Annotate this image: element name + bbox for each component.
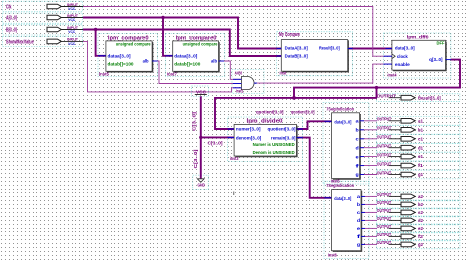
svg-text:OUTPUT: OUTPUT bbox=[377, 240, 392, 245]
lpm_compare0 inst5 bounding box bbox=[98, 34, 158, 77]
wire bus B[3..0] from input pin to MyCompare DataB bbox=[83, 30, 281, 57]
output pin e2 bounding box bbox=[376, 224, 460, 233]
output pin g2 bbox=[389, 243, 402, 245]
output pin e1 bounding box bbox=[376, 152, 460, 161]
node junction C bus bbox=[199, 136, 202, 139]
svg-text:e: e bbox=[356, 154, 360, 159]
wire bus remain to 7SegIndication inst6 data bbox=[296, 138, 331, 198]
wire bus riser near output pin Result bbox=[376, 88, 378, 98]
ground GND bbox=[197, 179, 204, 183]
wire bus C[3..0] to lpm_divide0 denom bbox=[201, 136, 234, 138]
AND3 output stub bbox=[254, 82, 257, 84]
svg-text:unsigned compare: unsigned compare bbox=[183, 41, 218, 46]
node junction A-branch bbox=[161, 16, 164, 19]
wire 7SegIndication inst5 d to output pin d1 bbox=[360, 147, 377, 149]
output pin f1 bounding box bbox=[376, 161, 460, 170]
wire 7SegIndication inst6 f to output pin f2 bbox=[361, 235, 377, 237]
wire 7SegIndication inst5 b to output pin b1 bbox=[360, 129, 377, 131]
svg-text:d: d bbox=[356, 145, 359, 150]
input pin ShowMaxValue bounding box bbox=[3, 36, 83, 46]
output pin c2 bbox=[389, 211, 402, 213]
port stubs 7SegIndication inst5 bbox=[324, 120, 331, 122]
port stubs MyCompare bbox=[277, 48, 282, 50]
input pin B bounding box bbox=[3, 25, 83, 35]
GND bounding box bbox=[193, 175, 208, 190]
svg-text:b2: b2 bbox=[418, 202, 423, 207]
svg-text:inst5: inst5 bbox=[99, 71, 109, 76]
VCC bounding box bbox=[192, 86, 209, 97]
wire bus B branch down to lpm_compare0 inst5 dataa bbox=[96, 30, 106, 56]
lpm_divide0 bounding box bbox=[228, 117, 303, 162]
wire 7SegIndication inst5 a to output pin a1 bbox=[360, 120, 377, 122]
svg-text:DataA[3..0]: DataA[3..0] bbox=[285, 46, 309, 51]
svg-text:ShowMaxValue: ShowMaxValue bbox=[6, 39, 34, 45]
svg-text:OUTPUT: OUTPUT bbox=[377, 144, 392, 149]
svg-text:data[3..0]: data[3..0] bbox=[395, 45, 415, 50]
wire bus quotient to 7SegIndication inst5 data bbox=[296, 121, 331, 129]
wire 7SegIndication inst5 g to output pin g1 bbox=[360, 174, 377, 176]
wire 7SegIndication inst5 e to output pin e1 bbox=[360, 156, 377, 158]
7SegIndication inst6 bounding box bbox=[324, 181, 369, 258]
svg-text:VCC: VCC bbox=[196, 89, 207, 94]
wire ShowMaxValue to AND3 input 3 bbox=[83, 41, 241, 92]
svg-text:alb: alb bbox=[143, 59, 149, 64]
wire AND3 output to lpm_dff0 enable bbox=[254, 64, 392, 83]
svg-text:VCC: VCC bbox=[68, 17, 75, 22]
svg-text:inst3: inst3 bbox=[230, 156, 239, 161]
svg-text:inst7: inst7 bbox=[167, 71, 177, 76]
svg-text:d: d bbox=[357, 218, 360, 223]
svg-text:OUTPUT: OUTPUT bbox=[377, 192, 392, 197]
svg-text:OUTPUT: OUTPUT bbox=[377, 94, 396, 99]
svg-text:c: c bbox=[356, 137, 360, 142]
svg-text:GND: GND bbox=[198, 183, 206, 188]
port stubs lpm_compare0 inst7 bbox=[166, 55, 173, 57]
svg-text:a: a bbox=[356, 119, 360, 124]
lpm_divide0 U5 block bbox=[235, 126, 297, 157]
lpm_dff0 U4 block bbox=[393, 42, 446, 71]
svg-text:AND3: AND3 bbox=[235, 70, 243, 75]
wire 7SegIndication inst5 c to output pin c1 bbox=[360, 138, 377, 140]
output pin c1 bounding box bbox=[376, 134, 460, 143]
svg-text:dataa[3..0]: dataa[3..0] bbox=[174, 53, 198, 58]
svg-text:lpm_dff0: lpm_dff0 bbox=[407, 34, 429, 40]
output pin d1 bounding box bbox=[376, 143, 460, 152]
wire bus MyCompare Result to lpm_dff0 data bbox=[348, 48, 392, 50]
svg-text:Result[3..0]: Result[3..0] bbox=[319, 46, 340, 51]
and-gate AND3 inst1 bbox=[241, 77, 254, 90]
svg-text:OUTPUT: OUTPUT bbox=[377, 216, 392, 221]
svg-text:alb: alb bbox=[211, 59, 217, 64]
input pin A bounding box bbox=[3, 13, 83, 23]
input pin ShowMaxValue bbox=[47, 39, 61, 44]
output pin g1 bbox=[389, 174, 402, 176]
svg-text:c: c bbox=[357, 210, 361, 215]
svg-text:DFF: DFF bbox=[437, 40, 445, 45]
input pin A[3..0] bbox=[47, 15, 61, 20]
node label C[3..0] rotated lower bbox=[193, 149, 198, 169]
svg-text:f2: f2 bbox=[418, 234, 424, 239]
clock triangle lpm_dff0 bbox=[392, 54, 395, 59]
svg-text:OUTPUT: OUTPUT bbox=[377, 135, 392, 140]
output pin f2 bounding box bbox=[376, 232, 460, 241]
svg-text:quotient[3..0]: quotient[3..0] bbox=[268, 127, 297, 132]
wire 7SegIndication inst6 a to output pin a2 bbox=[361, 195, 377, 197]
output pin d2 bounding box bbox=[376, 216, 460, 225]
svg-text:f1: f1 bbox=[418, 163, 424, 168]
port stubs 7SegIndication inst6 bbox=[324, 197, 331, 199]
wire Clk to lpm_dff0 clock bbox=[83, 7, 392, 57]
output pin f1 bbox=[389, 165, 402, 167]
svg-text:Clk: Clk bbox=[6, 4, 12, 10]
svg-text:data[3..0]: data[3..0] bbox=[334, 119, 351, 124]
svg-text:inst4: inst4 bbox=[388, 72, 397, 77]
wire bus C[3..0] vertical VCC to GND bbox=[200, 96, 202, 178]
svg-text:datab[]=100: datab[]=100 bbox=[108, 61, 135, 66]
input pin Clk bbox=[47, 4, 61, 9]
wire 7SegIndication inst5 f to output pin f1 bbox=[360, 165, 377, 167]
svg-text:OUTPUT: OUTPUT bbox=[377, 152, 392, 157]
svg-text:datab[]=100: datab[]=100 bbox=[174, 61, 201, 66]
output pin b1 bbox=[389, 129, 402, 131]
port stubs lpm_dff0 bbox=[386, 48, 392, 50]
7SegIndication inst5 bounding box bbox=[323, 102, 369, 184]
wire 7SegIndication inst6 g to output pin g2 bbox=[361, 243, 377, 245]
svg-text:g1: g1 bbox=[418, 172, 423, 177]
svg-text:inst6: inst6 bbox=[328, 252, 337, 257]
svg-text:g2: g2 bbox=[418, 242, 423, 247]
svg-text:OUTPUT: OUTPUT bbox=[377, 117, 392, 122]
svg-text:Result[3..0]: Result[3..0] bbox=[418, 95, 441, 100]
svg-text:a1: a1 bbox=[418, 118, 423, 123]
svg-text:e1: e1 bbox=[418, 154, 423, 159]
svg-text:enable: enable bbox=[395, 62, 410, 67]
lpm_dff0 bounding box bbox=[384, 33, 451, 78]
AND3 input stubs bbox=[233, 78, 241, 80]
output pin Result bounding box bbox=[376, 94, 460, 102]
node label C[3..0] rotated upper bbox=[192, 111, 197, 131]
7SegIndication U6 inst5 block bbox=[333, 114, 361, 179]
output pin d1 bbox=[389, 147, 402, 149]
wire 7SegIndication inst6 b to output pin b2 bbox=[361, 203, 377, 205]
svg-text:inst1: inst1 bbox=[236, 89, 244, 94]
svg-text:d1: d1 bbox=[418, 145, 423, 150]
wire bus A[3..0] from input pin to MyCompare DataA bbox=[83, 18, 281, 49]
svg-text:quotient[3..0]: quotient[3..0] bbox=[291, 109, 315, 114]
output pin Result[3..0] bbox=[389, 97, 402, 99]
svg-text:c1: c1 bbox=[418, 136, 423, 141]
wire 7SegIndication inst6 e to output pin e2 bbox=[361, 227, 377, 229]
output pin a1 bounding box bbox=[376, 116, 460, 125]
wire lpm_compare0 inst5 alb to AND3 input 2 bbox=[152, 61, 241, 84]
node junction at lower bus bbox=[292, 96, 296, 100]
svg-text:B[3..0]: B[3..0] bbox=[6, 27, 17, 33]
svg-text:VCC: VCC bbox=[68, 41, 75, 46]
svg-text:lpm_compare0: lpm_compare0 bbox=[108, 35, 149, 41]
output pin a2 bbox=[389, 195, 402, 197]
svg-text:inst: inst bbox=[280, 71, 287, 76]
wire bus q[3..0] wrap-around from lpm_dff0 q bbox=[294, 60, 460, 98]
output pin a1 bbox=[389, 120, 402, 122]
node junction B-branch bbox=[94, 28, 97, 31]
svg-text:OUTPUT: OUTPUT bbox=[377, 208, 392, 213]
svg-text:b: b bbox=[357, 202, 360, 207]
lpm_compare0 inst7 bounding box bbox=[166, 34, 225, 77]
svg-text:denom[3..0]: denom[3..0] bbox=[236, 135, 262, 140]
lpm_compare0 U2 inst7 block bbox=[174, 42, 219, 72]
svg-text:7SegIndication: 7SegIndication bbox=[326, 183, 354, 188]
output pin d2 bbox=[389, 219, 402, 221]
svg-text:quotient[3..0]: quotient[3..0] bbox=[256, 109, 284, 114]
svg-text:My Compare: My Compare bbox=[279, 32, 300, 38]
svg-text:VCC: VCC bbox=[68, 29, 75, 34]
svg-text:VCC: VCC bbox=[68, 6, 75, 11]
output pin c2 bounding box bbox=[376, 208, 460, 217]
wire 7SegIndication inst6 d to output pin d2 bbox=[361, 219, 377, 221]
wire bus A branch down to lpm_compare0 inst7 dataa bbox=[163, 18, 173, 56]
wire 7SegIndication inst6 c to output pin c2 bbox=[361, 211, 377, 213]
svg-text:OUTPUT: OUTPUT bbox=[377, 161, 392, 166]
port stubs lpm_divide0 bbox=[228, 128, 234, 130]
svg-text:A[3..0]: A[3..0] bbox=[6, 15, 17, 21]
wire lpm_compare0 inst7 alb to AND3 input 1 bbox=[219, 61, 242, 79]
wire bus lower run to lpm_divide0 numer bbox=[215, 98, 377, 129]
input pin Clk bounding box bbox=[3, 1, 83, 11]
svg-text:DataB[3..0]: DataB[3..0] bbox=[285, 54, 309, 59]
output pin b2 bounding box bbox=[376, 200, 460, 209]
stray text cursor mark bbox=[233, 192, 235, 196]
svg-text:OUTPUT: OUTPUT bbox=[377, 200, 392, 205]
input pin B[3..0] bbox=[47, 27, 61, 32]
svg-text:C[3..0]: C[3..0] bbox=[192, 111, 197, 131]
svg-text:OUTPUT: OUTPUT bbox=[377, 170, 392, 175]
lpm_compare0 U1 inst5 block bbox=[107, 42, 153, 72]
svg-text:a: a bbox=[357, 194, 361, 199]
svg-text:d2: d2 bbox=[418, 218, 423, 223]
svg-text:e: e bbox=[357, 226, 361, 231]
svg-text:c2: c2 bbox=[418, 210, 423, 215]
svg-text:OUTPUT: OUTPUT bbox=[377, 126, 392, 131]
svg-text:Numer is UNSIGNED: Numer is UNSIGNED bbox=[253, 142, 295, 147]
output pin c1 bbox=[389, 138, 402, 140]
output pin e1 bbox=[389, 156, 402, 158]
node junction at Result riser bbox=[375, 86, 378, 89]
svg-text:unsigned compare: unsigned compare bbox=[116, 41, 151, 46]
AND3 bounding box bbox=[232, 70, 264, 94]
output pin f2 bbox=[389, 235, 402, 237]
svg-text:a2: a2 bbox=[418, 194, 423, 199]
svg-text:7SegIndication: 7SegIndication bbox=[326, 106, 354, 111]
output pin g1 bounding box bbox=[376, 170, 460, 179]
svg-text:b1: b1 bbox=[418, 127, 423, 132]
svg-text:OUTPUT: OUTPUT bbox=[377, 224, 392, 229]
svg-text:lpm_divide0: lpm_divide0 bbox=[247, 119, 283, 125]
output pin g2 bounding box bbox=[376, 240, 460, 249]
svg-text:remain[3..0]: remain[3..0] bbox=[271, 135, 296, 140]
svg-text:OUTPUT: OUTPUT bbox=[377, 232, 392, 237]
svg-text:g: g bbox=[357, 242, 360, 247]
svg-text:Denom is UNSIGNED: Denom is UNSIGNED bbox=[253, 150, 295, 155]
svg-text:C[3..0]: C[3..0] bbox=[208, 141, 224, 146]
MyCompare U3 block bbox=[283, 41, 349, 72]
output pin b2 bbox=[389, 203, 402, 205]
port stubs lpm_compare0 inst5 bbox=[98, 55, 106, 57]
output pin e2 bbox=[389, 227, 402, 229]
svg-text:dataa[3..0]: dataa[3..0] bbox=[108, 53, 132, 58]
svg-text:q[3..0]: q[3..0] bbox=[429, 57, 443, 62]
svg-text:numer[3..0]: numer[3..0] bbox=[236, 127, 261, 132]
svg-text:b: b bbox=[356, 128, 359, 133]
svg-text:C[3..0]: C[3..0] bbox=[193, 149, 198, 169]
svg-text:e2: e2 bbox=[418, 226, 423, 231]
output pin b1 bounding box bbox=[376, 125, 460, 134]
svg-text:data[3..0]: data[3..0] bbox=[334, 196, 351, 201]
7SegIndication U7 inst6 block bbox=[333, 191, 362, 252]
output pin a2 bounding box bbox=[376, 192, 460, 201]
MyCompare bounding box bbox=[277, 32, 353, 76]
svg-text:lpm_compare0: lpm_compare0 bbox=[176, 35, 217, 41]
svg-text:g: g bbox=[356, 172, 359, 177]
svg-text:clock: clock bbox=[397, 54, 408, 59]
